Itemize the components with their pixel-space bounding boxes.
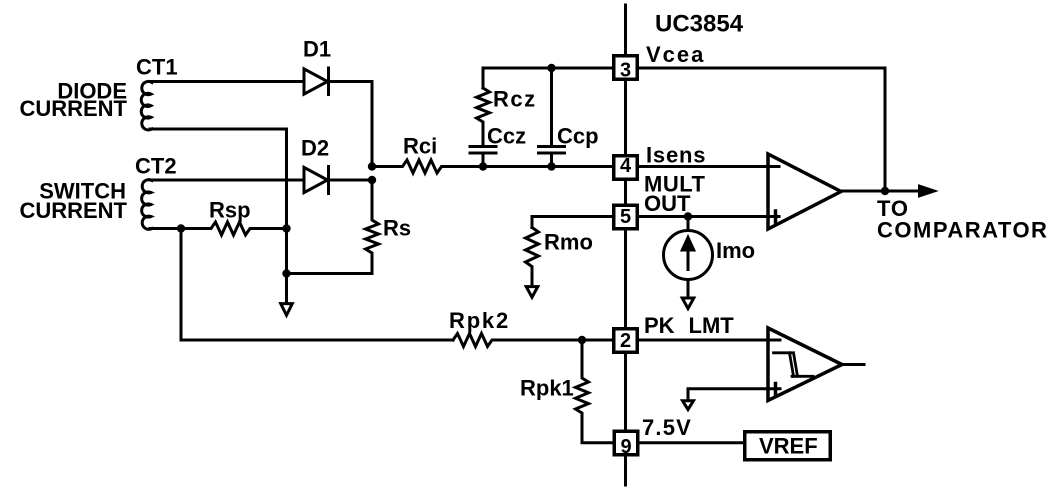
svg-text:Ccp: Ccp (557, 124, 599, 149)
resistor Rcz (477, 88, 490, 145)
wire Vcea top run (483, 68, 612, 88)
svg-text:2: 2 (620, 330, 631, 352)
svg-text:Rsp: Rsp (209, 198, 251, 223)
resistor Rs (287, 180, 379, 274)
transformer CT2 coil (142, 180, 152, 230)
ground below comparator plus (683, 401, 694, 410)
wire comparator plus input (688, 389, 780, 399)
svg-text:Rs: Rs (383, 216, 411, 241)
wire D2 cathode to junction (329, 179, 373, 182)
wire pin5 left to Rmo (532, 217, 612, 228)
wire PK LMT to comparator minus (639, 339, 780, 342)
svg-text:Rpk2: Rpk2 (449, 308, 510, 333)
svg-text:VREF: VREF (759, 434, 818, 459)
op-amp U1 (768, 154, 841, 229)
resistor Rci (372, 160, 613, 173)
wire CT1 top to D1 anode (150, 80, 304, 83)
wire Isens to op-amp minus (639, 165, 779, 168)
wire left branch down to Rpk2 run (181, 229, 453, 341)
pin box 2 (614, 329, 638, 353)
pin box 4 (614, 156, 638, 180)
svg-text:3: 3 (620, 60, 631, 82)
svg-text:Rpk1: Rpk1 (520, 376, 574, 401)
capacitor Ccz (470, 147, 496, 167)
wire comparator output (842, 363, 864, 366)
resistor Rpk1 (576, 340, 613, 443)
hysteresis symbol (774, 353, 814, 377)
wire MULT OUT to op-amp plus (639, 215, 779, 218)
diode D1 (304, 68, 329, 95)
wire pin9 to VREF (640, 441, 744, 444)
resistor Rpk2 on that wire (453, 334, 613, 347)
svg-text:CURRENT: CURRENT (19, 198, 127, 223)
diode D2 (304, 167, 329, 194)
pin box 3 (614, 56, 638, 80)
svg-text:D2: D2 (301, 136, 329, 161)
svg-text:OUT: OUT (644, 191, 691, 216)
svg-text:COMPARATOR: COMPARATOR (877, 218, 1048, 243)
svg-text:7.5V: 7.5V (642, 415, 692, 440)
pin box 9 (614, 431, 638, 455)
svg-text:D1: D1 (303, 37, 331, 62)
svg-text:Isens: Isens (646, 143, 706, 168)
svg-text:Ccz: Ccz (487, 124, 526, 149)
ground below Rs junction (281, 274, 293, 316)
pin box 5 (614, 205, 638, 229)
svg-text:UC3854: UC3854 (655, 11, 744, 38)
wire CT1 bottom to vertical (150, 129, 287, 302)
svg-text:CURRENT: CURRENT (19, 96, 127, 121)
capacitor Ccp (539, 68, 565, 167)
svg-text:9: 9 (621, 436, 632, 458)
resistor Rsp (181, 222, 287, 235)
svg-text:Rmo: Rmo (544, 230, 593, 255)
svg-text:CT2: CT2 (135, 154, 177, 179)
svg-text:CT1: CT1 (136, 55, 178, 80)
wire op-amp output with arrow (841, 186, 934, 196)
transformer CT1 coil (141, 81, 152, 130)
svg-text:Rci: Rci (403, 134, 437, 159)
svg-text:5: 5 (620, 206, 631, 228)
svg-text:Vcea: Vcea (646, 42, 705, 67)
wire CT2 top to D2 anode (150, 179, 304, 182)
svg-text:PK: PK (644, 313, 675, 338)
comparator U2 (768, 328, 842, 401)
wire CT2 bottom (150, 227, 181, 230)
wire Vcea right run (639, 68, 885, 191)
resistor Rmo (526, 228, 539, 286)
ground below Rmo (526, 287, 538, 298)
svg-text:LMT: LMT (689, 313, 735, 338)
svg-text:4: 4 (620, 155, 632, 177)
svg-text:Rcz: Rcz (493, 87, 537, 112)
current source Imo (664, 217, 713, 309)
wire D1 cathode to corner (329, 82, 373, 167)
IC center line segments (624, 5, 627, 485)
VREF box (745, 432, 831, 460)
svg-text:Imo: Imo (716, 238, 755, 263)
